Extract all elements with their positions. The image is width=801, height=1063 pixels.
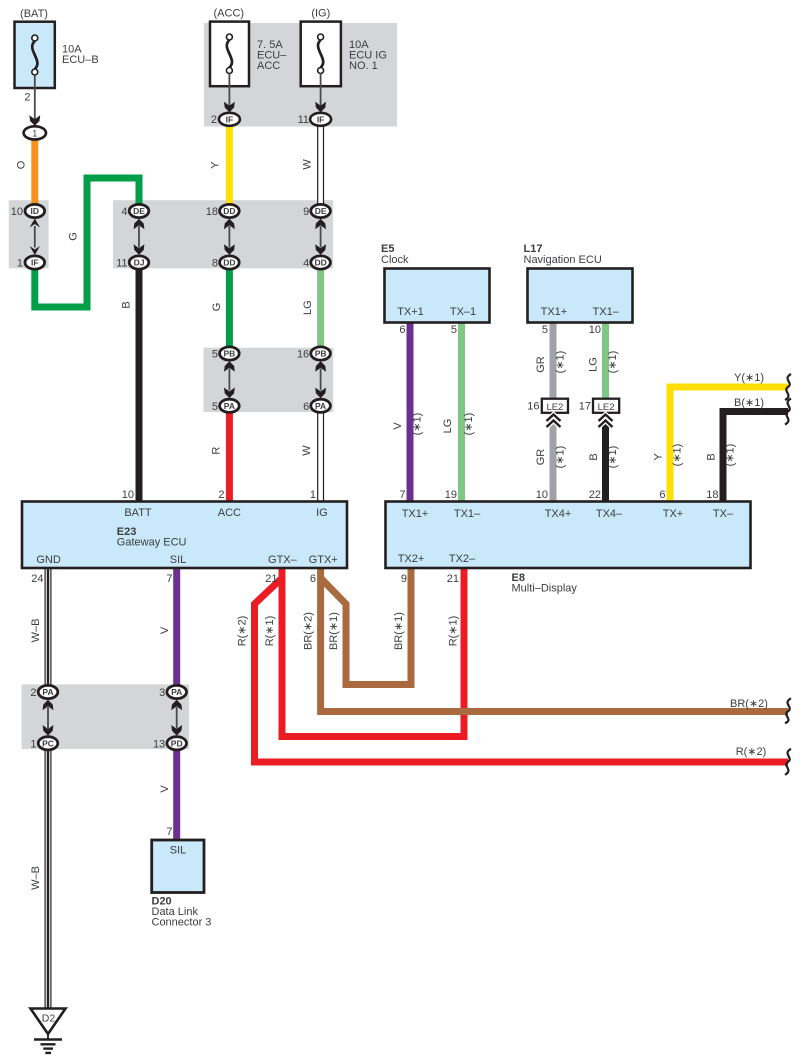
svg-text:(∗1): (∗1) (607, 351, 619, 374)
svg-text:GR: GR (535, 449, 547, 466)
svg-text:22: 22 (589, 489, 601, 501)
svg-text:GTX+: GTX+ (309, 554, 338, 566)
wire R(*1) red E23 GTX- to E8 TX2- (282, 568, 464, 737)
label E23 Gateway ECU (117, 526, 187, 549)
wire W-B white-black E23 GND to PA(2) (45, 568, 52, 686)
svg-text:6: 6 (659, 489, 665, 501)
svg-text:Connector 3: Connector 3 (152, 917, 212, 929)
wire label B (120, 301, 132, 308)
svg-text:BR(∗2): BR(∗2) (730, 698, 768, 710)
wire W white PA(6) to E23 IG (317, 409, 324, 502)
svg-text:TX1+: TX1+ (402, 508, 429, 520)
connector pair ID(10)/IF(1) (11, 204, 45, 269)
wire label R(*2) horizontal (736, 746, 767, 758)
label E5 Clock (381, 243, 409, 266)
svg-text:LE2: LE2 (598, 402, 615, 413)
svg-text:(∗1): (∗1) (672, 444, 684, 467)
wire label R(*1) vertical (264, 616, 276, 647)
svg-text:2: 2 (218, 489, 224, 501)
break symbol B(*1) (785, 399, 791, 425)
svg-text:5: 5 (542, 324, 548, 336)
svg-text:TX–1: TX–1 (450, 306, 476, 318)
svg-text:R(∗1): R(∗1) (448, 616, 460, 647)
svg-text:W: W (301, 445, 313, 456)
wire BR(*1) brown branch to E8 TX2+ (321, 568, 411, 685)
svg-text:LG: LG (588, 357, 600, 372)
svg-text:3: 3 (159, 687, 165, 699)
svg-text:IF: IF (317, 115, 325, 125)
wire B black DJ(11) to E23 BATT (136, 267, 143, 502)
port labels E23 (31, 489, 337, 585)
svg-text:ID: ID (31, 206, 40, 216)
svg-text:2: 2 (30, 687, 36, 699)
connector pair PA(2)/PC(1) (30, 685, 57, 750)
wire W white fuse IG IF(11) to DE(9) (317, 125, 324, 207)
svg-text:TX4+: TX4+ (545, 508, 572, 520)
wire LG light-green DD(4) to PB(16) (317, 267, 324, 350)
wire label BR(*2) vertical (303, 612, 315, 650)
svg-text:6: 6 (399, 324, 405, 336)
svg-text:Clock: Clock (381, 254, 409, 266)
port labels E5 (397, 306, 476, 336)
svg-text:DD: DD (223, 258, 235, 268)
svg-text:GTX–: GTX– (268, 554, 298, 566)
wire label V (*1) E5 (392, 413, 423, 436)
wire V violet E5 TX+1 to E8 TX1+ (407, 322, 414, 502)
svg-text:D2: D2 (42, 1013, 56, 1025)
wire Y yellow fuse ACC IF(2) to DD(18) (226, 125, 233, 207)
svg-text:9: 9 (401, 573, 407, 585)
node 1 circle below BAT fuse (24, 126, 46, 139)
shield block connectors PB/PA (204, 348, 334, 412)
svg-text:LE2: LE2 (546, 402, 563, 413)
wire BR(*2) brown E23 GTX+ to right break (321, 568, 788, 712)
ground D2 (31, 1009, 66, 1053)
svg-text:PB: PB (223, 349, 235, 359)
svg-text:11: 11 (116, 258, 127, 270)
svg-text:16: 16 (297, 349, 309, 361)
svg-text:19: 19 (445, 489, 457, 501)
wire label W 2 (301, 445, 313, 456)
label (IG) (298, 8, 387, 127)
connector pair PB(5)/PA(5) (212, 347, 239, 413)
wire GR gray L17 TX1+ to LE2(16) (550, 322, 557, 399)
svg-text:18: 18 (206, 206, 218, 218)
ECU box E5 Clock (385, 269, 490, 323)
break symbol BR(*2) (785, 698, 791, 723)
connector pair DE(9)/DD(4) (303, 204, 330, 269)
connector pair PA(3)/PD(13) (153, 685, 187, 750)
svg-text:2: 2 (211, 114, 217, 126)
svg-text:V: V (159, 785, 171, 793)
fuse IG 10A ECU IG NO.1 (301, 22, 341, 113)
svg-text:10: 10 (589, 324, 601, 336)
wire label B (*1) vertical right (706, 444, 737, 467)
connector box D20 Data Link Connector 3 (152, 840, 204, 893)
svg-text:IF: IF (31, 258, 39, 268)
svg-text:(IG): (IG) (311, 8, 330, 20)
fuse ACC 7.5A ECU-ACC (210, 22, 249, 113)
junction box LE2 pin17 (593, 399, 619, 427)
svg-text:Multi–Display: Multi–Display (512, 583, 578, 595)
svg-text:TX1–: TX1– (454, 508, 481, 520)
wire B black LE2(17) to E8 TX4- (600, 413, 611, 503)
pin label D20 (166, 826, 172, 838)
svg-text:1: 1 (17, 258, 23, 270)
svg-text:B: B (120, 301, 132, 308)
svg-text:BATT: BATT (124, 507, 152, 519)
svg-text:DD: DD (314, 258, 326, 268)
svg-text:GR: GR (535, 356, 547, 373)
svg-text:TX+1: TX+1 (397, 306, 424, 318)
svg-text:O: O (15, 160, 27, 169)
svg-text:LG: LG (302, 300, 314, 315)
wire G green DD(8) to PB(5) (226, 267, 233, 350)
svg-text:PD: PD (171, 738, 183, 748)
shield block connectors PA/PC PA/PD (22, 684, 190, 749)
svg-text:21: 21 (265, 573, 277, 585)
svg-text:DE: DE (133, 206, 145, 216)
wire label G 2 (211, 303, 223, 312)
shield block connectors DE/DJ DD/DD DE/DD (113, 200, 333, 268)
port labels L17 (541, 306, 620, 336)
wire W-B white-black PC(1) to ground D2 (45, 749, 52, 1009)
svg-text:PA: PA (42, 687, 53, 697)
svg-text:24: 24 (31, 573, 43, 585)
wire label BR(*1) vertical (328, 612, 340, 650)
svg-text:ACC: ACC (257, 60, 280, 72)
svg-text:2: 2 (24, 92, 30, 104)
wire label R(*2) vertical (237, 616, 249, 647)
ECU box L17 Navigation ECU (528, 269, 633, 323)
svg-text:5: 5 (212, 401, 218, 413)
svg-text:R: R (210, 447, 222, 455)
wire label V lower (159, 785, 171, 793)
svg-text:(∗1): (∗1) (555, 446, 567, 469)
wire label LG (*1) E5 (442, 413, 475, 436)
wire R red PA(5) to E23 ACC (226, 409, 233, 502)
wire label Y (*1) vertical (653, 444, 684, 467)
wire G green IF(1) to DE(4) (35, 178, 139, 307)
svg-text:11: 11 (298, 114, 309, 126)
label L17 Navigation ECU (524, 243, 602, 266)
svg-text:7: 7 (166, 573, 172, 585)
svg-text:SIL: SIL (170, 845, 187, 857)
shield block connector ID/IF (9, 200, 49, 268)
svg-text:W–B: W–B (30, 866, 42, 890)
svg-text:5: 5 (451, 324, 457, 336)
svg-text:PA: PA (224, 401, 235, 411)
wire label Y(*1) horizontal (734, 372, 764, 384)
wire label BR(*2) horizontal (730, 698, 768, 710)
svg-text:(∗1): (∗1) (463, 413, 475, 436)
wire label B(*1) horizontal (734, 397, 764, 409)
break symbol R(*2) (785, 749, 791, 775)
svg-text:PB: PB (315, 349, 327, 359)
svg-text:IF: IF (226, 115, 234, 125)
pin labels LE2 (527, 401, 591, 413)
svg-text:TX1–: TX1– (593, 306, 620, 318)
svg-text:Gateway ECU: Gateway ECU (117, 537, 187, 549)
svg-text:10: 10 (122, 489, 134, 501)
svg-text:Y: Y (210, 161, 222, 169)
svg-text:W–B: W–B (30, 619, 42, 643)
wire label O (15, 160, 27, 169)
junction box LE2 pin16 (542, 399, 568, 427)
wire label G (67, 232, 79, 241)
ECU box E23 Gateway ECU (22, 502, 347, 569)
svg-text:SIL: SIL (170, 554, 187, 566)
svg-text:NO. 1: NO. 1 (349, 60, 378, 72)
connector IF pin11 below IG fuse (310, 113, 331, 126)
svg-text:ACC: ACC (218, 507, 241, 519)
wire label W (302, 159, 314, 170)
svg-text:BR(∗1): BR(∗1) (328, 612, 340, 650)
shield block ACC/IG fuses (204, 23, 397, 127)
wire LG light-green E5 TX-1 to E8 TX1- (458, 322, 465, 502)
svg-text:TX4–: TX4– (596, 508, 623, 520)
svg-text:PA: PA (171, 687, 182, 697)
svg-text:17: 17 (579, 401, 591, 413)
wire label B (*1) lower (588, 446, 619, 469)
label (BAT) (20, 8, 99, 104)
wire label GR (*1) lower (535, 446, 566, 469)
svg-text:10: 10 (11, 206, 23, 218)
svg-text:G: G (211, 303, 223, 312)
svg-text:4: 4 (303, 258, 309, 270)
label (ACC) (211, 8, 287, 127)
wire label R(*1) vertical 2 (448, 616, 460, 647)
svg-text:V: V (392, 422, 404, 430)
wire label BR(*1) vertical 2 (393, 612, 405, 650)
svg-text:B: B (588, 453, 600, 460)
wire label R (210, 447, 222, 455)
svg-text:R(∗2): R(∗2) (237, 616, 249, 647)
wire R(*2) red branch to right break (255, 578, 789, 762)
svg-text:V: V (159, 626, 171, 634)
svg-text:Y: Y (653, 453, 665, 461)
svg-text:18: 18 (706, 489, 718, 501)
svg-text:IG: IG (316, 507, 328, 519)
svg-text:TX+: TX+ (663, 508, 683, 520)
wire O orange BAT node1 to ID (31, 139, 38, 208)
wire LG light-green L17 TX1- to LE2(17) (602, 322, 609, 399)
wire label Y (210, 161, 222, 169)
svg-text:13: 13 (153, 738, 165, 750)
svg-text:DJ: DJ (134, 258, 145, 268)
svg-text:TX1+: TX1+ (541, 306, 568, 318)
connector pair DE(4)/DJ(11) (116, 204, 149, 269)
svg-text:7: 7 (166, 826, 172, 838)
port labels E8 (398, 489, 734, 585)
svg-text:ECU–B: ECU–B (62, 54, 99, 66)
svg-text:(∗1): (∗1) (555, 351, 567, 374)
wire V violet PD(13) to D20 SIL (173, 749, 180, 841)
connector IF pin2 below ACC fuse (219, 113, 240, 126)
svg-text:(ACC): (ACC) (214, 8, 245, 20)
wire label W-B upper (30, 619, 42, 643)
connector pair DD(18)/DD(8) (206, 204, 239, 269)
svg-text:(∗1): (∗1) (607, 446, 619, 469)
svg-text:5: 5 (212, 349, 218, 361)
wire label LG (302, 300, 314, 315)
svg-text:6: 6 (303, 401, 309, 413)
fuse BAT 10A ECU-B (15, 22, 55, 126)
wire label V upper (159, 626, 171, 634)
wire GR gray LE2(16) to E8 TX4+ (550, 413, 557, 502)
svg-text:PC: PC (42, 738, 54, 748)
connector pair PB(16)/PA(6) (297, 347, 330, 413)
wire label GR (*1) upper (535, 351, 566, 374)
svg-text:BR(∗1): BR(∗1) (393, 612, 405, 650)
svg-text:Navigation ECU: Navigation ECU (524, 254, 602, 266)
svg-text:1: 1 (32, 128, 37, 138)
svg-text:16: 16 (527, 401, 539, 413)
svg-text:4: 4 (121, 206, 127, 218)
svg-text:TX–: TX– (713, 508, 734, 520)
svg-text:Y(∗1): Y(∗1) (734, 372, 764, 384)
svg-text:21: 21 (447, 573, 459, 585)
svg-text:(BAT): (BAT) (20, 8, 48, 20)
svg-text:DD: DD (223, 206, 235, 216)
svg-text:BR(∗2): BR(∗2) (303, 612, 315, 650)
svg-text:R(∗2): R(∗2) (736, 746, 767, 758)
break symbol Y(*1) (785, 374, 791, 400)
wire Y(*1) yellow E8 TX+ to right break (670, 387, 788, 502)
label E8 Multi-Display (512, 572, 578, 595)
wire B(*1) black E8 TX- to right break (723, 412, 788, 503)
svg-text:W: W (302, 159, 314, 170)
label D20 Data Link Connector 3 (152, 896, 212, 929)
wire label LG (*1) L17 (588, 351, 620, 374)
svg-text:GND: GND (36, 554, 61, 566)
svg-text:(∗1): (∗1) (725, 444, 737, 467)
wire label W-B lower (30, 866, 42, 890)
wire V violet E23 SIL to PA(3) (173, 568, 180, 686)
svg-text:TX2–: TX2– (449, 553, 476, 565)
svg-text:B: B (706, 453, 718, 460)
svg-text:R(∗1): R(∗1) (264, 616, 276, 647)
svg-text:B(∗1): B(∗1) (734, 397, 764, 409)
svg-text:PA: PA (315, 401, 326, 411)
svg-text:(∗1): (∗1) (412, 413, 424, 436)
svg-text:LG: LG (442, 419, 454, 434)
svg-text:10: 10 (536, 489, 548, 501)
svg-text:8: 8 (212, 258, 218, 270)
svg-text:7: 7 (399, 489, 405, 501)
svg-text:9: 9 (303, 206, 309, 218)
svg-text:1: 1 (310, 489, 316, 501)
svg-text:1: 1 (30, 738, 36, 750)
svg-text:G: G (67, 232, 79, 241)
svg-text:TX2+: TX2+ (398, 553, 425, 565)
svg-text:6: 6 (310, 573, 316, 585)
svg-text:DE: DE (315, 206, 327, 216)
ECU box E8 Multi-Display (386, 502, 751, 569)
